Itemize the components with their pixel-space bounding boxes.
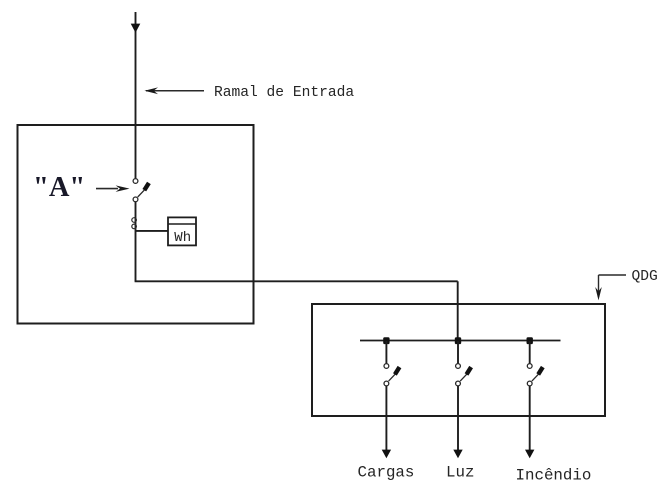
junction: bus tap 1	[383, 337, 389, 344]
svg-text:Ramal de Entrada: Ramal de Entrada	[214, 85, 354, 101]
wire: bus to switch 3	[529, 341, 531, 364]
arrow: pointer from "A" to switch	[96, 185, 130, 192]
switch: main disconnect "A"	[133, 179, 149, 202]
wire: bus to switch 1	[385, 341, 387, 364]
svg-text:QDG: QDG	[632, 269, 658, 285]
box: left enclosure (medicao)	[18, 125, 254, 324]
wire: tap to Wh meter	[136, 230, 169, 232]
svg-text:Cargas: Cargas	[358, 463, 415, 481]
svg-text:Luz: Luz	[446, 463, 474, 481]
leader arrow: Ramal de Entrada	[144, 87, 204, 94]
svg-text:"A": "A"	[33, 172, 85, 203]
wire: incoming service feeder (vertical)	[135, 12, 137, 178]
wire: switch 1 to load	[385, 386, 387, 450]
arrow: load 2	[453, 450, 462, 459]
wire: switch A to lower corner	[135, 202, 137, 282]
switch: circuit 3 (Incendio)	[527, 364, 543, 386]
arrow: feeder flow direction (down)	[131, 24, 141, 33]
bus: QDG distribution bus	[360, 340, 561, 342]
leader arrow: QDG callout	[595, 275, 626, 300]
junction: bus tap 2	[455, 337, 461, 344]
wire: switch 3 to load	[529, 386, 531, 450]
junction: bus tap 3	[527, 337, 533, 344]
wire: drop into QDG bus	[457, 281, 459, 340]
box: QDG enclosure	[312, 304, 605, 416]
svg-text:Incêndio: Incêndio	[516, 466, 592, 484]
wire: bus to switch 2	[457, 341, 459, 364]
svg-text:Wh: Wh	[174, 230, 191, 246]
switch: circuit 2 (Luz)	[456, 364, 472, 386]
wire: switch 2 to load	[457, 386, 459, 450]
meter: Wh (kilowatt-hour meter)	[168, 217, 196, 245]
coil: meter current loops	[132, 218, 137, 229]
arrow: load 1	[382, 450, 391, 459]
wire: horizontal run to QDG	[135, 280, 458, 282]
arrow: load 3	[525, 450, 534, 459]
switch: circuit 1 (Cargas)	[384, 364, 400, 386]
